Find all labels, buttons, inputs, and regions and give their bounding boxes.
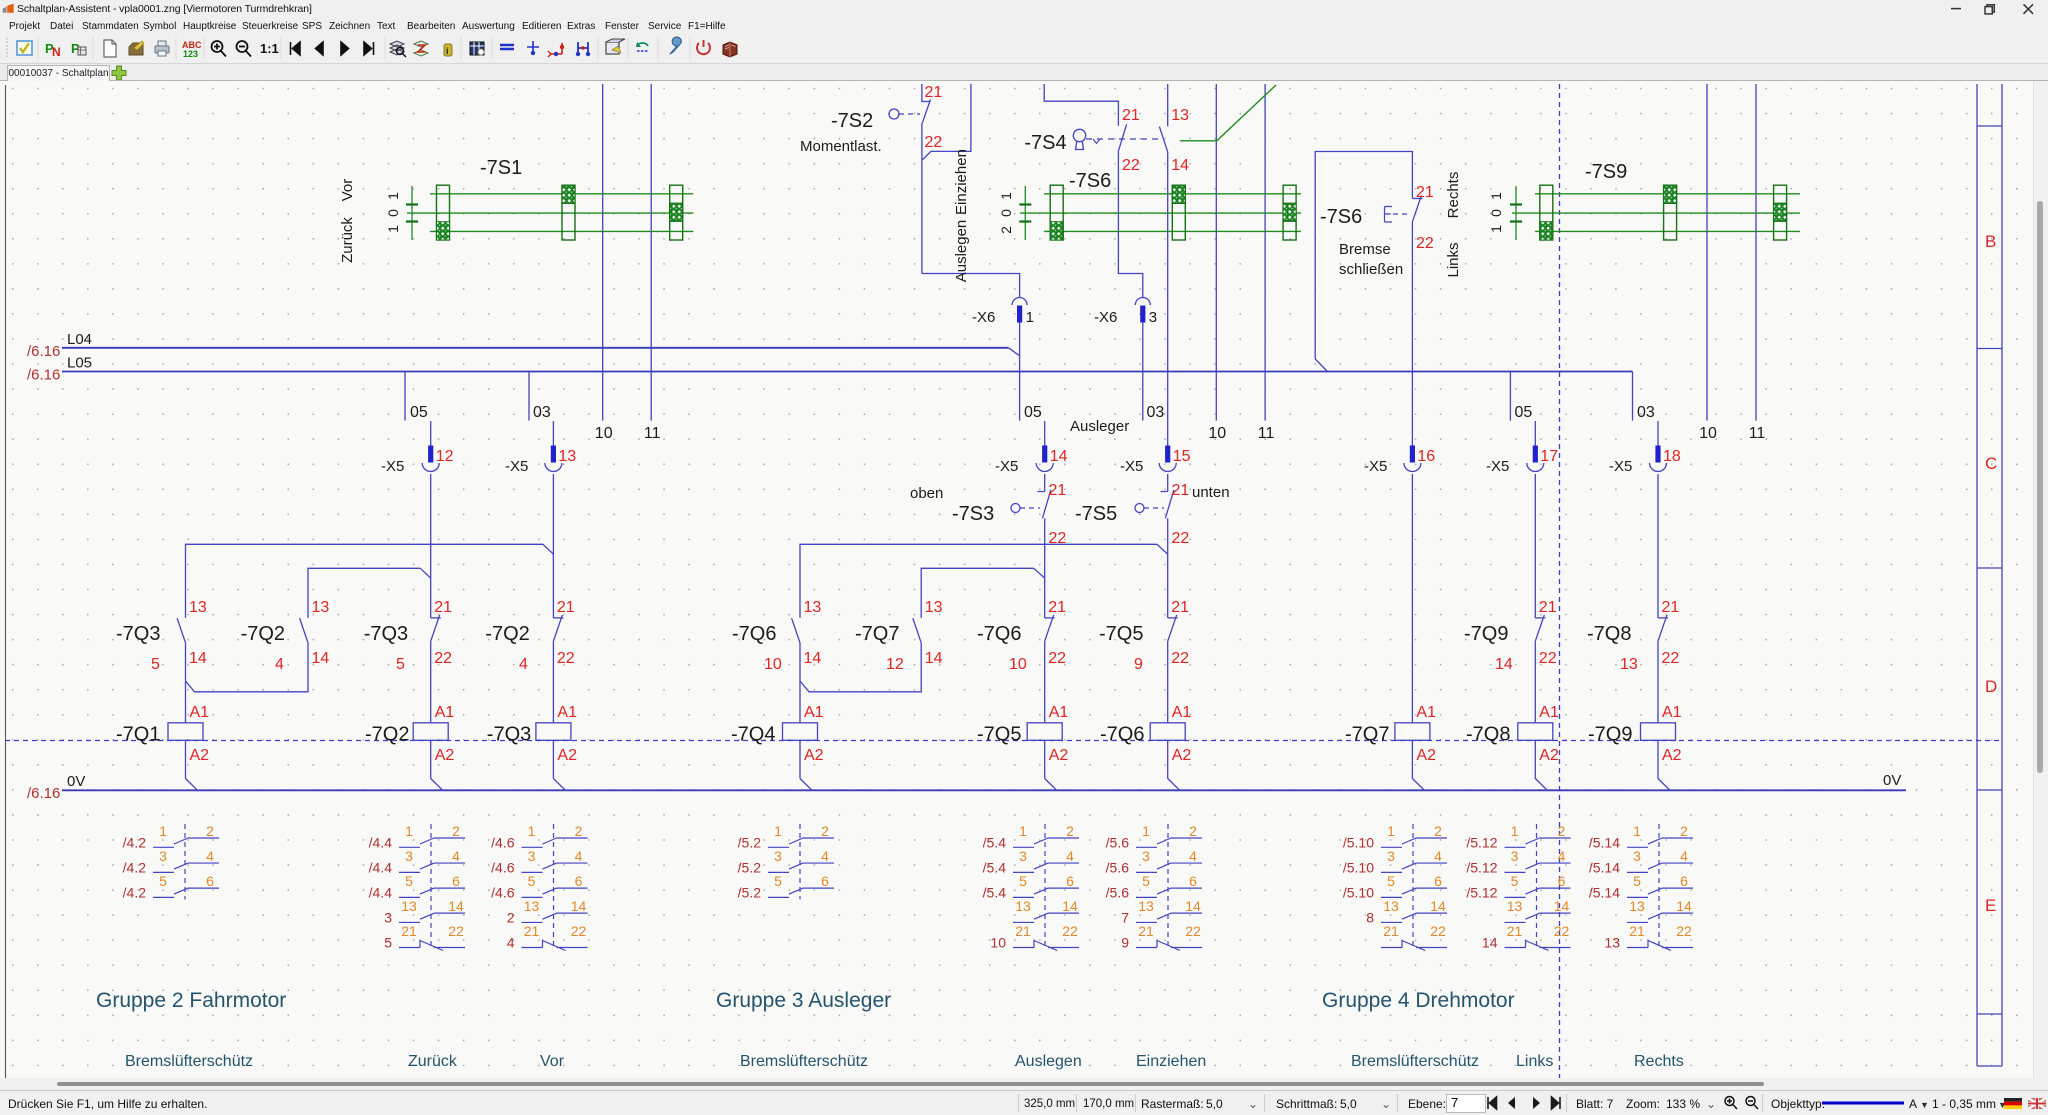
page boundary dashed horizontal — [5, 740, 2002, 742]
svg-text:/5.12: /5.12 — [1466, 859, 1497, 875]
contactor coil -7Q1 — [168, 723, 203, 741]
icon: move point — [551, 43, 562, 54]
contactor coil -7Q2 — [413, 723, 448, 741]
interlock wire net B group3 (y544) — [800, 544, 1168, 618]
svg-text:3: 3 — [159, 848, 167, 864]
svg-text:2: 2 — [575, 823, 583, 839]
svg-text:5: 5 — [159, 873, 167, 889]
svg-text:14: 14 — [1062, 898, 1078, 914]
icon: H nodes — [578, 42, 588, 54]
svg-text:-7Q6: -7Q6 — [1100, 724, 1144, 746]
svg-text:21: 21 — [434, 599, 452, 616]
svg-text:-7S9: -7S9 — [1585, 161, 1627, 183]
svg-text:5: 5 — [405, 873, 413, 889]
svg-text:10: 10 — [1009, 656, 1027, 673]
icon: zoom in — [212, 41, 227, 57]
svg-text:13: 13 — [925, 599, 943, 616]
svg-text:5: 5 — [774, 873, 782, 889]
svg-text:1: 1 — [159, 823, 167, 839]
svg-text:N: N — [52, 45, 61, 59]
terminal -X6:1 — [1012, 298, 1027, 323]
svg-text:1: 1 — [1488, 225, 1504, 233]
svg-text:-X5: -X5 — [1364, 458, 1387, 475]
svg-text:/4.4: /4.4 — [369, 859, 393, 875]
wire -7S2 to -X6:1 — [922, 274, 1020, 299]
cam switch -7S1 column 3 — [670, 185, 683, 240]
svg-text:14: 14 — [1171, 157, 1189, 174]
svg-text:21: 21 — [1138, 923, 1154, 939]
svg-text:4: 4 — [1434, 848, 1442, 864]
interlock wire net A group2 (y568) — [308, 568, 420, 618]
wire -7Q5 A2 to 0V with junction slash — [1044, 740, 1046, 778]
svg-text:9: 9 — [1134, 656, 1143, 673]
svg-text:5: 5 — [1142, 873, 1150, 889]
svg-text:10: 10 — [595, 425, 613, 442]
cam switch -7S1 column 1 — [437, 185, 450, 240]
icon: undo — [637, 43, 648, 46]
wire -7Q3 14 down / branch to -7Q2 14 — [185, 643, 187, 723]
wire stub to terminal -X5:13 — [552, 421, 554, 446]
svg-text:-7Q6: -7Q6 — [977, 623, 1021, 645]
svg-text:22: 22 — [571, 923, 587, 939]
svg-text:21: 21 — [1015, 923, 1031, 939]
svg-text:3: 3 — [1387, 848, 1395, 864]
svg-text:10: 10 — [764, 656, 782, 673]
cam switch -7S6 track line 1 — [1044, 193, 1301, 195]
contactor coil -7Q4 — [783, 723, 818, 741]
contact -7Q7 (13/14) blade — [913, 618, 921, 643]
svg-text:/4.6: /4.6 — [491, 834, 515, 850]
cam switch -7S6 column 2 closed cell — [1172, 185, 1185, 203]
svg-text:/5.4: /5.4 — [983, 884, 1007, 900]
cam switch -7S6 column 2 — [1172, 185, 1185, 240]
wire -X5:18 down to contact -7Q8 21 — [1657, 474, 1659, 618]
svg-text:03: 03 — [1637, 404, 1655, 421]
svg-text:Links: Links — [1516, 1053, 1553, 1070]
contact -7Q6 (21/22) blade — [1045, 617, 1055, 619]
svg-text:-7Q8: -7Q8 — [1587, 623, 1631, 645]
icon: help book — [723, 42, 737, 57]
wire -7S4 22 to -X6:3 — [1118, 152, 1142, 298]
svg-text:/5.6: /5.6 — [1106, 834, 1130, 850]
bus 0V — [62, 789, 1906, 791]
svg-text:6: 6 — [452, 873, 460, 889]
svg-text:/4.2: /4.2 — [123, 834, 147, 850]
svg-text:Einziehen: Einziehen — [953, 149, 970, 215]
cam switch -7S9 axis — [1515, 186, 1517, 240]
sheet column frame right — [1976, 84, 1978, 1066]
wire -X6:3 down through L05 to number 03 — [1142, 323, 1144, 421]
svg-text:5: 5 — [151, 656, 160, 673]
svg-text:18: 18 — [1663, 448, 1681, 465]
svg-text:11: 11 — [1749, 425, 1766, 442]
svg-text:14: 14 — [925, 650, 943, 667]
terminal -X6:3 — [1135, 298, 1150, 323]
svg-text:13: 13 — [312, 599, 330, 616]
svg-text:14: 14 — [1185, 898, 1201, 914]
wire -7Q3 A2 to 0V with junction slash — [552, 740, 554, 778]
svg-text:/6.16: /6.16 — [27, 785, 60, 802]
svg-text:22: 22 — [1171, 650, 1189, 667]
wire -X5:13 down to contact -7Q2 21 — [552, 474, 554, 618]
svg-text:/5.12: /5.12 — [1466, 884, 1497, 900]
svg-text:3: 3 — [384, 909, 392, 925]
svg-text:14: 14 — [1050, 448, 1068, 465]
svg-text:6: 6 — [206, 873, 214, 889]
wire -7S3 22 down to contact -7Q6 21 — [1044, 518, 1046, 618]
svg-text:-7Q9: -7Q9 — [1464, 623, 1508, 645]
svg-text:1: 1 — [1026, 309, 1034, 326]
svg-text:/5.4: /5.4 — [983, 859, 1007, 875]
wire 11 (x=1265.1) — [1264, 84, 1266, 421]
svg-text:-7S6: -7S6 — [1069, 170, 1111, 192]
junction slash -7S6 riser to L05 — [1315, 359, 1327, 372]
svg-text:Momentlast.: Momentlast. — [800, 138, 882, 155]
junction slash L04 to -X6:1 wire — [1009, 348, 1021, 357]
svg-text:B: B — [1985, 232, 1996, 251]
svg-text:22: 22 — [1048, 650, 1066, 667]
svg-text:4: 4 — [519, 656, 528, 673]
cam switch -7S9 column 3 closed cell — [1774, 203, 1787, 221]
svg-text:13: 13 — [1620, 656, 1638, 673]
svg-text:5: 5 — [1633, 873, 1641, 889]
wire -7S6 route to L05 — [1315, 152, 1412, 359]
svg-text:-7Q3: -7Q3 — [364, 623, 408, 645]
svg-text:1: 1 — [998, 192, 1014, 200]
svg-text:A1: A1 — [804, 704, 824, 721]
svg-text:22: 22 — [925, 134, 943, 151]
contact mirror table of -7Q2 — [369, 823, 465, 951]
wire -X5:12 down to contact -7Q3 21 — [430, 474, 432, 618]
wire -7Q4 A2 to 0V with junction slash — [799, 740, 801, 778]
svg-text:D: D — [1985, 677, 1997, 696]
icon: printer — [155, 46, 169, 53]
contactor coil -7Q8 — [1518, 723, 1553, 741]
svg-text:/5.10: /5.10 — [1343, 884, 1374, 900]
svg-text:03: 03 — [1147, 404, 1165, 421]
svg-text:05: 05 — [1024, 404, 1042, 421]
switch -7S6 E actuator — [1385, 207, 1393, 223]
svg-text:Bremslüfterschütz: Bremslüfterschütz — [125, 1053, 253, 1070]
cam switch -7S1 track line 2 — [407, 212, 693, 214]
cam switch -7S6 axis — [1024, 186, 1026, 240]
svg-text:13: 13 — [524, 898, 540, 914]
wire -X6:1 down through L04 to number 05 — [1019, 323, 1021, 421]
svg-text:/5.14: /5.14 — [1589, 834, 1620, 850]
svg-text:6: 6 — [1434, 873, 1442, 889]
svg-text:1:1: 1:1 — [260, 41, 279, 56]
svg-text:-X5: -X5 — [995, 458, 1018, 475]
cam switch -7S6 column 1 — [1050, 185, 1063, 240]
svg-text:Bremse: Bremse — [1339, 241, 1391, 258]
svg-text:-7Q8: -7Q8 — [1466, 724, 1510, 746]
svg-text:Auslegen: Auslegen — [953, 220, 970, 283]
svg-text:-7S5: -7S5 — [1075, 503, 1117, 525]
contact mirror table of -7Q9 — [1589, 823, 1693, 951]
svg-text:A2: A2 — [804, 747, 824, 764]
svg-text:3: 3 — [1511, 848, 1519, 864]
svg-text:11: 11 — [644, 425, 661, 442]
icon: info bottle — [444, 44, 452, 56]
svg-text:6: 6 — [575, 873, 583, 889]
wire stub to terminal -X5:12 — [430, 421, 432, 446]
svg-text:21: 21 — [1539, 599, 1557, 616]
wire -7S6 22 down through L05 to terminal -X5:16 — [1411, 222, 1413, 446]
svg-text:2: 2 — [1680, 823, 1688, 839]
svg-text:2: 2 — [1434, 823, 1442, 839]
wire -7S4 contact2 from top — [1167, 84, 1169, 126]
svg-text:Gruppe 4 Drehmotor: Gruppe 4 Drehmotor — [1322, 989, 1515, 1012]
svg-text:5: 5 — [1511, 873, 1519, 889]
svg-text:-7Q3: -7Q3 — [116, 623, 160, 645]
icon: new document — [104, 40, 116, 57]
svg-text:0V: 0V — [67, 773, 85, 790]
svg-text:1: 1 — [1488, 192, 1504, 200]
svg-text:3: 3 — [1142, 848, 1150, 864]
svg-text:2: 2 — [1189, 823, 1197, 839]
wire -7S2 22 down — [921, 123, 923, 273]
svg-text:A1: A1 — [435, 704, 455, 721]
svg-text:A2: A2 — [1172, 747, 1192, 764]
cam switch -7S6 track line 2 — [1020, 212, 1301, 214]
wire -7Q7 A2 to 0V with junction slash — [1411, 740, 1413, 778]
switch -7S4 contact2 blade — [1159, 127, 1167, 152]
svg-text:5: 5 — [396, 656, 405, 673]
svg-text:/4.4: /4.4 — [369, 884, 393, 900]
svg-text:/5.2: /5.2 — [738, 859, 762, 875]
svg-text:9: 9 — [1121, 935, 1129, 951]
terminal -X5:14 — [1036, 446, 1053, 472]
svg-text:-X5: -X5 — [1120, 458, 1143, 475]
svg-text:6: 6 — [821, 873, 829, 889]
svg-text:-7Q6: -7Q6 — [732, 623, 776, 645]
svg-text:1: 1 — [528, 823, 536, 839]
cam switch -7S9 track line 1 — [1535, 193, 1800, 195]
svg-text:3: 3 — [1149, 309, 1157, 326]
svg-text:2: 2 — [1066, 823, 1074, 839]
cam switch -7S9 column 2 closed cell — [1664, 185, 1677, 203]
svg-text:-X6: -X6 — [1094, 309, 1117, 326]
icon: power — [697, 40, 710, 54]
terminal -X5:15 — [1159, 446, 1176, 472]
switch -7S2 actuator dashed link — [899, 113, 920, 115]
svg-text:4: 4 — [452, 848, 460, 864]
svg-text:22: 22 — [1662, 650, 1680, 667]
svg-text:22: 22 — [1122, 157, 1140, 174]
cam switch -7S1 track line 3 — [430, 230, 693, 232]
svg-text:/5.4: /5.4 — [983, 834, 1007, 850]
svg-text:14: 14 — [312, 650, 330, 667]
wire contact -7Q3 22 down to coil -7Q2 — [430, 641, 432, 723]
svg-text:22: 22 — [1416, 235, 1434, 252]
svg-text:15: 15 — [1173, 448, 1191, 465]
svg-text:6: 6 — [1066, 873, 1074, 889]
svg-text:/5.12: /5.12 — [1466, 834, 1497, 850]
cam switch -7S9 track line 2 — [1512, 212, 1800, 214]
svg-text:i: i — [446, 46, 449, 56]
svg-text:13: 13 — [804, 599, 822, 616]
svg-text:/5.2: /5.2 — [738, 834, 762, 850]
bus L05 — [62, 371, 1633, 373]
svg-text:21: 21 — [557, 599, 575, 616]
cam switch -7S6 track line 3 — [1044, 230, 1301, 232]
svg-text:3: 3 — [1019, 848, 1027, 864]
wire -7Q8 A2 to 0V with junction slash — [1534, 740, 1536, 778]
wire -X5:15 down to switch -7S5 — [1167, 474, 1169, 492]
svg-text:/5.10: /5.10 — [1343, 859, 1374, 875]
svg-text:/4.6: /4.6 — [491, 884, 515, 900]
svg-text:2: 2 — [821, 823, 829, 839]
svg-text:-X5: -X5 — [1609, 458, 1632, 475]
contactor coil -7Q9 — [1641, 723, 1676, 741]
svg-text:22: 22 — [1676, 923, 1692, 939]
svg-text:/6.16: /6.16 — [27, 343, 60, 360]
svg-text:21: 21 — [925, 84, 943, 101]
icon: insert point — [527, 41, 539, 53]
svg-text:0: 0 — [1488, 209, 1504, 217]
svg-text:14: 14 — [1676, 898, 1692, 914]
switch -7S3 actuator circle — [1011, 504, 1020, 513]
svg-text:A1: A1 — [557, 704, 577, 721]
svg-text:A1: A1 — [190, 704, 210, 721]
svg-text:A1: A1 — [1416, 704, 1436, 721]
svg-text:A2: A2 — [190, 747, 210, 764]
icon: double line — [500, 45, 514, 49]
svg-text:2: 2 — [206, 823, 214, 839]
svg-text:4: 4 — [821, 848, 829, 864]
svg-text:03: 03 — [533, 404, 551, 421]
svg-text:Zurück: Zurück — [408, 1053, 458, 1070]
junction slash interlock to wire x430 — [420, 568, 430, 578]
contact mirror table of -7Q7 — [1343, 823, 1447, 951]
switch -7S5 contact — [1161, 490, 1174, 519]
svg-text:5: 5 — [528, 873, 536, 889]
svg-text:-X5: -X5 — [505, 458, 528, 475]
svg-text:13: 13 — [1138, 898, 1154, 914]
sheet left border line — [5, 85, 7, 1078]
cam switch -7S1 track line 1 — [430, 193, 693, 195]
cam switch -7S1 column 2 closed cell — [562, 185, 575, 203]
svg-text:Vor: Vor — [540, 1053, 565, 1070]
terminal -X5:12 — [422, 446, 439, 472]
svg-text:L05: L05 — [67, 355, 92, 372]
contact mirror table of -7Q1 — [123, 823, 219, 901]
switch -7S6 brake contact blade — [1412, 198, 1422, 200]
wire -7S5 22 down to contact -7Q5 21 — [1167, 518, 1169, 618]
icon: project check — [17, 41, 32, 55]
svg-text:/4.2: /4.2 — [123, 884, 147, 900]
svg-text:22: 22 — [1554, 923, 1570, 939]
svg-text:A1: A1 — [1049, 704, 1069, 721]
svg-text:21: 21 — [1629, 923, 1645, 939]
mechanical link green diagonal (-7S4 to top) — [1180, 85, 1276, 141]
svg-text:A2: A2 — [1049, 747, 1069, 764]
svg-text:0: 0 — [998, 209, 1014, 217]
page boundary dashed vertical — [1559, 84, 1561, 1078]
contact mirror table of -7Q8 — [1466, 823, 1570, 951]
svg-text:1: 1 — [385, 192, 401, 200]
svg-text:-7S6: -7S6 — [1320, 206, 1362, 228]
svg-text:Vor: Vor — [339, 179, 356, 202]
svg-text:21: 21 — [1662, 599, 1680, 616]
svg-text:2: 2 — [1558, 823, 1566, 839]
switch -7S4 key symbol — [1073, 129, 1085, 149]
svg-text:22: 22 — [448, 923, 464, 939]
svg-text:21: 21 — [1048, 599, 1066, 616]
svg-text:/4.6: /4.6 — [491, 859, 515, 875]
wire contact -7Q2 22 down to coil -7Q3 — [552, 641, 554, 723]
wire contact -7Q6 22 down to coil -7Q5 — [1044, 641, 1046, 723]
svg-text:22: 22 — [1062, 923, 1078, 939]
svg-text:6: 6 — [1680, 873, 1688, 889]
interlock wire net A group3 (y568) — [921, 568, 1034, 618]
svg-text:Gruppe 2 Fahrmotor: Gruppe 2 Fahrmotor — [96, 989, 286, 1012]
svg-text:1: 1 — [1633, 823, 1641, 839]
svg-text:14: 14 — [448, 898, 464, 914]
svg-text:-X5: -X5 — [1486, 458, 1509, 475]
svg-text:2: 2 — [507, 909, 515, 925]
contact -7Q6 (13/14) blade — [792, 618, 800, 643]
nav icons — [291, 42, 374, 55]
svg-text:Ausleger: Ausleger — [1070, 418, 1129, 435]
svg-text:11: 11 — [1258, 425, 1275, 442]
wire contact -7Q8 22 down to coil -7Q9 — [1657, 641, 1659, 723]
bus L04 — [62, 347, 1009, 349]
contact mirror table of -7Q5 — [983, 823, 1079, 951]
svg-text:14: 14 — [1430, 898, 1446, 914]
svg-text:4: 4 — [1189, 848, 1197, 864]
svg-text:4: 4 — [507, 935, 515, 951]
svg-text:A2: A2 — [435, 747, 455, 764]
svg-text:4: 4 — [1066, 848, 1074, 864]
svg-text:1: 1 — [1511, 823, 1519, 839]
svg-text:Rechts: Rechts — [1634, 1053, 1684, 1070]
svg-text:Bremslüfterschütz: Bremslüfterschütz — [740, 1053, 868, 1070]
wire contact -7Q9 22 down to coil -7Q8 — [1534, 641, 1536, 723]
svg-text:A2: A2 — [1539, 747, 1559, 764]
cam switch -7S6 column 1 closed cell — [1050, 222, 1063, 240]
grab handle — [6, 38, 8, 59]
svg-text:Rechts: Rechts — [1445, 172, 1462, 219]
svg-text:13: 13 — [401, 898, 417, 914]
svg-text:1: 1 — [1019, 823, 1027, 839]
icon: zoom out — [237, 41, 252, 57]
svg-text:-X5: -X5 — [381, 458, 404, 475]
contactor coil -7Q3 — [536, 723, 571, 741]
svg-text:A2: A2 — [1662, 747, 1682, 764]
svg-text:A1: A1 — [1172, 704, 1192, 721]
svg-text:10: 10 — [1699, 425, 1717, 442]
svg-text:-7Q5: -7Q5 — [1099, 623, 1143, 645]
terminal -X5:18 — [1650, 446, 1667, 472]
svg-text:Einziehen: Einziehen — [1136, 1053, 1206, 1070]
cam switch -7S6 column 3 closed cell — [1283, 203, 1296, 221]
svg-text:-7Q3: -7Q3 — [487, 724, 531, 746]
contact -7Q5 (21/22) blade — [1168, 617, 1178, 619]
svg-text:8: 8 — [1366, 909, 1374, 925]
wire stub to terminal -X5:17 — [1534, 421, 1536, 446]
svg-text:-7Q2: -7Q2 — [485, 623, 529, 645]
svg-text:C: C — [1985, 454, 1997, 473]
contact -7Q8 (21/22) blade — [1658, 617, 1668, 619]
svg-text:/5.6: /5.6 — [1106, 859, 1130, 875]
svg-text:/5.6: /5.6 — [1106, 884, 1130, 900]
svg-text:5: 5 — [1019, 873, 1027, 889]
switch -7S5 actuator circle — [1135, 504, 1144, 513]
svg-text:22: 22 — [1172, 530, 1190, 547]
svg-text:oben: oben — [910, 485, 943, 502]
svg-text:4: 4 — [206, 848, 214, 864]
